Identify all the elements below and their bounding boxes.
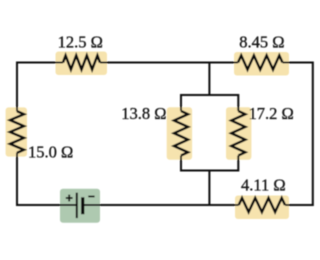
svg-text:4.11 Ω: 4.11 Ω [241, 176, 286, 195]
svg-text:8.45 Ω: 8.45 Ω [239, 33, 284, 52]
resistor 8.45 ohm zigzag [238, 56, 283, 70]
wire feed from parallel pair to bottom node [208, 171, 210, 206]
resistor 13.8 ohm highlight [167, 107, 192, 159]
battery negative plate (short) [81, 197, 84, 214]
resistor 12.5 ohm highlight [56, 52, 108, 76]
resistor 12.5 ohm zigzag [63, 56, 100, 70]
battery highlight [60, 189, 100, 223]
resistor 17.2 ohm zigzag [231, 111, 245, 156]
resistor 17.2 ohm highlight [226, 107, 251, 159]
resistor 13.8 ohm zigzag [174, 111, 188, 156]
battery plus sign [66, 195, 73, 202]
svg-text:15.0 Ω: 15.0 Ω [28, 142, 73, 161]
wire top-middle segment [100, 62, 238, 64]
wire top rail of parallel pair [181, 95, 238, 111]
battery positive plate (long) [76, 193, 78, 218]
wire feed from top node to parallel pair [208, 63, 210, 96]
svg-text:17.2 Ω: 17.2 Ω [249, 104, 294, 123]
wire bottom-left segment [17, 153, 77, 205]
resistor 4.11 ohm highlight [235, 196, 289, 220]
svg-text:12.5 Ω: 12.5 Ω [58, 33, 103, 52]
resistor 15.0 ohm zigzag [10, 111, 24, 153]
resistor 8.45 ohm highlight [234, 52, 289, 76]
wire top-right segment [283, 63, 313, 206]
wire bottom rail of parallel pair [181, 156, 238, 171]
resistor 4.11 ohm zigzag [239, 198, 285, 212]
svg-text:13.8 Ω: 13.8 Ω [121, 104, 166, 123]
wire top-left segment [17, 63, 63, 112]
wire bottom-middle segment [83, 204, 239, 206]
battery minus sign [88, 195, 94, 197]
resistor 15.0 ohm highlight [6, 107, 27, 156]
